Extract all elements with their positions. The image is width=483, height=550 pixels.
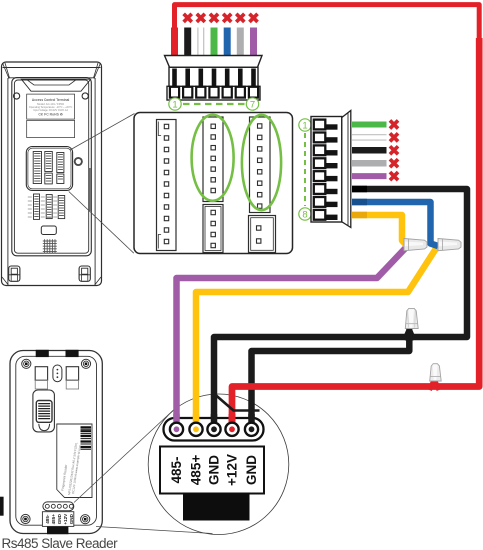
wire red sleeve at connector (171, 28, 178, 63)
leader line reader to zoom circle (lower) (96, 527, 213, 534)
foot left (9, 266, 20, 281)
X not connected top pin2 (184, 14, 192, 22)
svg-text:1: 1 (302, 120, 307, 131)
screw top-left (14, 93, 20, 99)
svg-text:8: 8 (302, 209, 307, 220)
right plug contacts (324, 124, 338, 220)
terminal outer shell (2, 62, 102, 286)
wire black GND-B from connector pin area to terminal 5 (252, 334, 410, 430)
terminal ring +12V (225, 423, 238, 436)
svg-text:485+: 485+ (189, 455, 204, 486)
leader line reader to zoom circle (upper) (74, 410, 174, 503)
top connector wire 2 black (184, 28, 191, 59)
black jumper bracket over wires (215, 395, 260, 411)
reader serial label (57, 424, 92, 498)
green ellipse highlight around J2 (192, 115, 234, 201)
circled 1 (right connector) (299, 119, 311, 131)
spec label with text (27, 94, 75, 119)
crimp segment black (352, 186, 367, 193)
X not connected top pin3 (197, 14, 205, 22)
dashed green pin range line (1-8) (304, 133, 306, 206)
reader mounting tab bottom (47, 526, 68, 534)
black bar at left image edge (0, 497, 4, 516)
leader line from terminal panel to zoom box (upper) (70, 114, 135, 151)
top connector wire 3 white (197, 28, 204, 59)
wiring panel pin header col3 (57, 153, 64, 173)
terminal ring GND (207, 423, 220, 436)
12-pin connector J1 (157, 120, 177, 251)
zoomed terminal strip capsule (164, 418, 264, 441)
circled 8 (right connector) (299, 208, 311, 220)
dashed green pin range line (1-7) (183, 103, 245, 105)
wire stub purple into terminal (173, 414, 180, 425)
access control terminal (back view, top-left device) (2, 62, 102, 286)
X not connected top pin6 (236, 14, 244, 22)
wire stub black2 into terminal (248, 414, 255, 425)
reader terminal connector (43, 502, 74, 511)
7-pin connector J2 (203, 117, 223, 202)
reader pad top-left (35, 367, 47, 381)
X not connected pin1 (390, 120, 398, 128)
reader screw bottom-right (81, 515, 90, 524)
wire purple pin5 stub (352, 173, 387, 179)
label vertical text (61, 442, 82, 495)
reader LED oval (53, 365, 62, 382)
terminal top rim band (3, 68, 101, 78)
reader terminal holes (45, 504, 73, 508)
round opening right of wiring panel (75, 158, 82, 165)
svg-text:Access Control Terminal: Access Control Terminal (32, 98, 69, 102)
wire yellow pin8 to wire nut 1 (352, 215, 406, 245)
X not connected pin3 (390, 146, 398, 154)
lower block silk text columns (28, 197, 57, 217)
svg-text:+12V: +12V (63, 513, 68, 525)
barcode on label (81, 427, 92, 449)
terminal top cap inner chevron (27, 79, 77, 85)
top plug cavities (170, 87, 258, 98)
screw top-right (82, 93, 88, 99)
J3 pins (211, 210, 215, 247)
green ellipse highlight around J4 (242, 115, 281, 210)
lower connector block B (46, 195, 52, 219)
black block below label plate (183, 493, 250, 521)
wire yellow 485+ run (196, 247, 441, 424)
reader inner outline (16, 356, 97, 525)
wire black pin3 stub (352, 147, 387, 154)
zoom box of terminal wiring area (134, 113, 293, 254)
reader outer shell (10, 351, 102, 534)
X not connected pin5 (390, 172, 398, 180)
magnifier circle (zoom bubble for RS485 terminals) (148, 394, 289, 535)
top connector wire 5 blue (224, 28, 231, 59)
reader mounting tab top-left (36, 350, 49, 357)
reader DIP switch module (33, 390, 55, 432)
right plug cavities (314, 120, 326, 220)
speaker grille (43, 239, 57, 253)
wire white pin2 stub (352, 134, 387, 141)
terminal corner chamfers (2, 63, 101, 285)
leader line from terminal panel to zoom box (lower) (69, 192, 134, 254)
top plug contacts (172, 69, 256, 90)
wiring panel pin header col1 (33, 152, 41, 184)
reader mounting tab top-right (66, 350, 79, 357)
wire black pin6 run to GND terminal 3 (214, 189, 467, 424)
top connector wire 6 grey (237, 28, 244, 59)
wire purple 485- run (177, 248, 407, 425)
X not connected pin4 (390, 159, 398, 167)
8-pin connector J4 (250, 117, 271, 213)
top connector wire 7 purple (250, 28, 257, 59)
X not connected top pin4 (210, 14, 218, 22)
right wall slot (89, 168, 91, 211)
right plug wedge ridge (347, 113, 349, 226)
wire stub yellow into terminal (193, 414, 200, 425)
wire red +12V loop thin top run (175, 5, 480, 40)
J5 pins (257, 226, 261, 243)
zoomed label plate (160, 447, 264, 494)
reader screw top-left (22, 359, 31, 368)
J1 pins (164, 124, 168, 243)
reader pad top-right (66, 367, 78, 381)
svg-text:Rs485 Slave Reader: Rs485 Slave Reader (2, 536, 119, 550)
svg-text:GND: GND (244, 455, 259, 485)
wiring panel pin header col2 (45, 152, 53, 172)
terminal inner panel (12, 78, 92, 256)
wire nut 1 (yellow to purple) (404, 239, 427, 251)
wire red +12V loop main run (232, 38, 479, 424)
reader terminal label strip (42, 512, 73, 527)
right 8-pin plug body (311, 111, 351, 228)
terminal side walls (8, 78, 95, 285)
RS485 slave reader (back view, bottom-left device) (10, 351, 102, 534)
top connector wire 4 green (211, 28, 218, 59)
terminal wiring panel (26, 147, 72, 191)
svg-text:485-: 485- (169, 456, 184, 483)
wire stub black into terminal (211, 414, 218, 425)
svg-text:7: 7 (250, 99, 255, 110)
X not connected top pin7 (249, 14, 257, 22)
svg-text:GND: GND (69, 513, 74, 524)
wire blue pin7 to wire nut 2 (352, 202, 438, 246)
reader screw bottom-left (21, 514, 30, 523)
J2 pins (211, 124, 215, 193)
wire grey pin4 stub (352, 160, 387, 167)
2-pin connector J5 (249, 216, 276, 253)
circled 7 (top connector) (246, 98, 258, 110)
wire nut 2 (blue to yellow) (438, 239, 461, 251)
lower connector block A (34, 194, 40, 219)
X not connected pin2 (390, 133, 398, 141)
svg-text:1: 1 (172, 99, 177, 110)
wire nut 3 (black GND junction) (405, 308, 418, 328)
J4 pins (258, 124, 262, 208)
crimp segment blue (352, 199, 367, 206)
wire green pin1 stub (352, 122, 387, 128)
reader screw top-right (81, 359, 90, 368)
svg-text:485+: 485+ (51, 514, 56, 525)
spec label 2 (blank) (27, 120, 75, 137)
wire stub red into terminal (229, 414, 236, 425)
terminal ring GND2 (245, 423, 258, 436)
crimp segment yellow (352, 212, 367, 219)
top 7-pin plug body (165, 56, 263, 101)
terminal ring 485+ (189, 423, 202, 436)
4-pin connector J3 (203, 205, 223, 253)
X not connected top pin5 (223, 14, 231, 22)
svg-text:CЄ FС RoHS ♻: CЄ FС RoHS ♻ (38, 113, 62, 117)
terminal top cap trapezoid (21, 79, 90, 91)
circled 1 (top connector) (169, 98, 181, 110)
svg-text:485-: 485- (45, 514, 50, 524)
terminal ring 485- (170, 423, 183, 436)
svg-text:+12V: +12V (225, 454, 240, 486)
wire nut 4 (red +12V junction) (430, 364, 442, 381)
lower connector block C (58, 196, 64, 219)
spec label text (29, 98, 73, 117)
svg-text:GND: GND (207, 455, 222, 485)
red stub into wire nut 4 (430, 380, 440, 391)
svg-text:GND: GND (57, 513, 62, 524)
foot right (79, 266, 90, 281)
black stub into wire nut 3 (405, 329, 415, 340)
bottom tab (41, 226, 56, 235)
